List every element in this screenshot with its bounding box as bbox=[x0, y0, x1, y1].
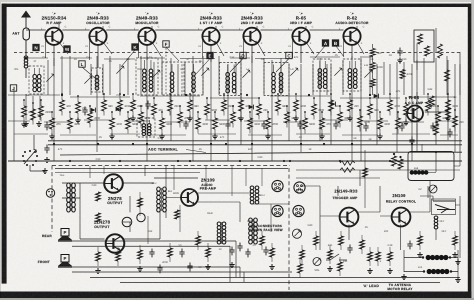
resistor R87 bbox=[338, 257, 343, 276]
ground G6 bbox=[23, 121, 28, 126]
resistor R82 bbox=[368, 247, 373, 266]
junction n7 bbox=[69, 160, 71, 162]
junction n20 bbox=[369, 94, 371, 96]
resistor R88 bbox=[360, 235, 365, 254]
outer scan margin bottom bbox=[0, 298, 474, 300]
junction n17 bbox=[185, 94, 187, 96]
speaker front bbox=[38, 255, 72, 268]
capacitor C40 bbox=[149, 249, 154, 258]
resistor R74 bbox=[196, 231, 201, 250]
resistor R120 bbox=[205, 97, 218, 119]
transformer L2 oscillator coil bbox=[92, 68, 103, 92]
resistor R136 bbox=[347, 93, 359, 121]
resistor R95 bbox=[340, 161, 355, 165]
junction n9 bbox=[189, 160, 191, 162]
transistor Q13 2N109 RELAY CONTROL bbox=[386, 193, 416, 227]
connector J2 bbox=[46, 189, 54, 197]
switch S2 rotary bbox=[22, 135, 45, 171]
resistor R116 bbox=[168, 93, 180, 115]
capacitor C13 bbox=[183, 121, 188, 130]
junction n13 bbox=[389, 160, 391, 162]
resistor R138 bbox=[368, 97, 380, 119]
junction n4 bbox=[251, 143, 253, 145]
capacitor C42 bbox=[229, 247, 234, 256]
resistor R80 bbox=[328, 245, 333, 264]
capacitor C8 bbox=[44, 145, 49, 154]
resistor R135 bbox=[338, 105, 351, 127]
resistor R60 bbox=[430, 96, 435, 107]
capacitor C35 bbox=[397, 48, 402, 63]
ground GA5 bbox=[327, 266, 332, 271]
resistor R133 bbox=[319, 111, 331, 139]
wire dashed chassis left bbox=[51, 166, 53, 233]
capacitor C46 bbox=[157, 265, 162, 274]
resistor R107 bbox=[88, 105, 101, 127]
junction n23 bbox=[225, 143, 227, 145]
transformer T5 4th IF transformer bbox=[313, 59, 331, 91]
transformer T10 output bbox=[217, 222, 226, 244]
capacitor C41 bbox=[179, 249, 184, 258]
capacitor C14 bbox=[225, 121, 230, 130]
resistor R99 bbox=[398, 156, 403, 169]
thermistor TH1 bbox=[122, 217, 132, 227]
resistor R118 bbox=[187, 93, 199, 121]
junction n18 bbox=[246, 94, 248, 96]
diode CR2 bbox=[374, 94, 379, 99]
junction n12 bbox=[339, 160, 341, 162]
resistor R103 bbox=[49, 111, 61, 139]
resistor R127 bbox=[265, 111, 278, 139]
transformer T2 1st IF transformer primary bbox=[162, 62, 182, 95]
ground GA7 bbox=[387, 268, 392, 273]
junction n16 bbox=[123, 94, 125, 96]
transistor Q5 2N49-R33 2ND I F AMP bbox=[241, 13, 264, 45]
transistor Q4 2N49-R33 1 ST I F AMP bbox=[200, 13, 223, 45]
connector point J bbox=[10, 85, 16, 91]
capacitor C17 bbox=[333, 121, 338, 130]
resistor R82 bbox=[96, 213, 101, 222]
transformer T12 output secondary bbox=[249, 218, 258, 244]
connector P3 face view bbox=[272, 205, 283, 216]
wire top interconnect y30 bbox=[26, 29, 344, 31]
pin labels Q7 bbox=[339, 26, 365, 49]
junction n26 bbox=[411, 143, 413, 145]
wire x365 drop bbox=[364, 150, 366, 208]
transformer T6 detector transformer bbox=[343, 59, 361, 91]
wire field links y95-98 bbox=[8, 95, 455, 98]
junction n2 bbox=[146, 143, 148, 145]
box top-right RC network bbox=[414, 30, 434, 62]
wire collector risers bbox=[59, 24, 357, 31]
resistor R62b bbox=[446, 108, 451, 119]
wire can top links y58 bbox=[26, 57, 372, 59]
resistor R105 bbox=[68, 111, 81, 133]
junction n27 bbox=[435, 151, 437, 153]
connector point N bbox=[33, 44, 39, 50]
capacitor C44 bbox=[347, 245, 352, 254]
resistor R76 bbox=[260, 231, 265, 250]
resistor R70 bbox=[96, 247, 101, 266]
inductor L20 choke bbox=[422, 255, 451, 259]
connector point L bbox=[79, 61, 85, 67]
resistor R110 bbox=[118, 93, 131, 115]
resistor R137 bbox=[358, 109, 371, 131]
potentiometer VOLUME bbox=[313, 258, 321, 273]
resistor R62c bbox=[445, 70, 450, 81]
junction n1 bbox=[97, 143, 99, 145]
capacitor C10 bbox=[44, 122, 49, 131]
resistor R96 bbox=[340, 168, 355, 172]
capacitor C20 bbox=[409, 137, 414, 146]
wire base drops bbox=[46, 36, 344, 60]
wire relay feeds bbox=[420, 196, 460, 258]
resistor R126 bbox=[257, 97, 269, 119]
transformer T7 modulator coil bbox=[137, 118, 155, 137]
diode CR5 bbox=[116, 107, 121, 112]
ground GA3 bbox=[229, 262, 234, 267]
wire emitter diagonals bbox=[59, 42, 364, 56]
junction n3 bbox=[210, 143, 212, 145]
potentiometer sensitivity bbox=[429, 185, 437, 193]
connector point K bbox=[132, 44, 138, 50]
resistor R84 bbox=[175, 210, 180, 219]
wire pointer diagonals bbox=[82, 46, 344, 79]
resistor R141 bbox=[396, 111, 409, 133]
resistor R85 bbox=[453, 231, 458, 250]
diode CR3 bbox=[331, 102, 336, 107]
junction n22 bbox=[177, 160, 179, 162]
capacitor C16 bbox=[297, 121, 302, 130]
wire dashed drop x166 bbox=[165, 48, 167, 95]
resistor R94 470K bbox=[400, 70, 413, 79]
pin labels Q5 bbox=[239, 26, 265, 49]
resistor R75 bbox=[206, 243, 211, 262]
capacitor C48 bbox=[263, 247, 268, 256]
ground GA6 bbox=[367, 268, 372, 273]
variable capacitor VC3 bbox=[116, 66, 124, 74]
ground G2 bbox=[455, 277, 460, 282]
transistor Q7 R-62 AUDIO-DETECTOR bbox=[335, 13, 369, 45]
junction n19 bbox=[308, 94, 310, 96]
wire dashed divider bbox=[288, 168, 290, 290]
variable capacitor VC5 bbox=[201, 68, 209, 76]
resistor R121 bbox=[212, 111, 225, 139]
resistor R98 bbox=[392, 153, 397, 166]
resistor R89 bbox=[376, 247, 381, 266]
transistor Q1 2N150-R34 R F AMP bbox=[42, 13, 67, 45]
connector point F bbox=[163, 41, 169, 47]
ground G3 bbox=[401, 274, 406, 279]
resistor R61 bbox=[434, 124, 439, 135]
capacitor C19 bbox=[399, 123, 404, 132]
wire right column bbox=[412, 28, 460, 152]
transistor Q8 R-64 AGC AMP bbox=[405, 95, 424, 121]
wire bottom audio section bbox=[62, 165, 198, 239]
ground G7 bbox=[36, 121, 41, 126]
wire relay box feeds bbox=[412, 144, 460, 196]
pin labels Q6 bbox=[288, 26, 314, 49]
resistor R92 1000 bbox=[370, 57, 383, 71]
inductor L21 choke bbox=[423, 269, 452, 273]
resistor R93 bbox=[370, 71, 375, 96]
connector P4 face view bbox=[293, 205, 304, 216]
resistor R131 bbox=[303, 111, 316, 133]
wire bus y144.8 bbox=[48, 144, 462, 146]
junction n15 bbox=[61, 94, 63, 96]
wire dashed AVC line y52 bbox=[14, 52, 460, 54]
resistor R143 bbox=[426, 93, 438, 115]
junction n5 bbox=[300, 143, 302, 145]
ground GA0 bbox=[95, 268, 100, 273]
resistor R108 bbox=[102, 93, 114, 115]
border frame left bar bbox=[2, 4, 7, 284]
wire vertical trunk lines bbox=[14, 56, 460, 161]
pin labels Q1 bbox=[41, 26, 67, 49]
capacitor C43 bbox=[245, 249, 250, 258]
variable capacitor VC6 bbox=[242, 70, 250, 78]
transformer T8 audio input bbox=[67, 183, 76, 212]
inductor L1 antenna loading coil bbox=[24, 56, 28, 78]
resistor R122 bbox=[222, 93, 235, 115]
resistor R134 bbox=[329, 93, 341, 115]
resistor R129 bbox=[285, 105, 298, 127]
connector P1 face view bbox=[272, 180, 283, 191]
resistor R128 bbox=[276, 93, 288, 115]
variable capacitor VC9 bbox=[364, 70, 372, 78]
border frame top bar bbox=[2, 4, 470, 7]
transformer T11 coupling bbox=[250, 186, 259, 204]
resistor R83 bbox=[388, 247, 393, 266]
resistor R111 bbox=[126, 111, 139, 133]
resistor R83 bbox=[138, 198, 143, 207]
junction n11 bbox=[289, 160, 291, 162]
pin labels Q2 bbox=[85, 26, 111, 49]
resistor R113 bbox=[139, 105, 151, 127]
junction n14 bbox=[25, 57, 27, 59]
transformer T1 antenna coil bbox=[29, 66, 44, 94]
label connectors note bbox=[249, 224, 283, 232]
resistor R56 bbox=[363, 168, 368, 177]
variable capacitor VC2 bbox=[84, 76, 92, 84]
capacitor C22 bbox=[447, 129, 452, 138]
wire bus y140.8 bbox=[48, 140, 462, 142]
resistor R115 bbox=[159, 111, 172, 139]
resistor R145 bbox=[445, 93, 458, 121]
resistor R71 bbox=[116, 247, 121, 266]
transformer T2a modulator transformer bbox=[136, 58, 158, 95]
ground GA2 bbox=[205, 264, 210, 269]
resistor R139 bbox=[377, 111, 390, 139]
transformer T2 1st IF transformer secondary bbox=[184, 62, 203, 95]
connector point D bbox=[240, 52, 246, 58]
connector point A bbox=[322, 40, 328, 46]
resistor R106 bbox=[75, 95, 87, 123]
capacitor C15 bbox=[261, 121, 266, 130]
resistor R130 bbox=[293, 93, 306, 121]
resistor R124 bbox=[238, 93, 250, 121]
resistor R119 bbox=[196, 111, 209, 133]
resistor R123 bbox=[231, 105, 243, 127]
resistor R86 bbox=[298, 259, 303, 278]
wire trigger section bbox=[296, 170, 460, 250]
resistor R114 bbox=[152, 97, 164, 119]
resistor R142 bbox=[403, 97, 416, 125]
resistor R77 bbox=[270, 243, 275, 262]
connector P2 face view bbox=[294, 182, 305, 193]
resistor R81 bbox=[96, 192, 101, 201]
connector point C bbox=[286, 52, 292, 58]
label AGC TERMINAL bbox=[148, 147, 206, 152]
antenna bbox=[12, 11, 31, 57]
junction n25 bbox=[323, 143, 325, 145]
ground GA8 bbox=[417, 252, 422, 257]
relay K1 contacts bbox=[432, 199, 456, 215]
diode CR1 bbox=[91, 108, 96, 113]
diode CR4 bbox=[249, 105, 254, 110]
junction n10 bbox=[239, 160, 241, 162]
resistor R140 bbox=[388, 93, 401, 115]
connector point M bbox=[64, 46, 70, 52]
transistor Q6 R-65 3RD I F AMP bbox=[290, 13, 313, 45]
capacitor C11 bbox=[82, 107, 87, 116]
resistor R146 bbox=[453, 109, 465, 131]
junction n0 bbox=[53, 143, 55, 145]
transformer T9 driver bbox=[152, 182, 173, 212]
resistor R125 bbox=[248, 111, 261, 133]
wire choke links bbox=[404, 250, 458, 280]
junction n8 bbox=[119, 160, 121, 162]
transistor Q3 2N49-R33 MODULATOR bbox=[135, 13, 159, 45]
junction n21 bbox=[132, 143, 134, 145]
junction n24 bbox=[283, 160, 285, 162]
ground G1 bbox=[455, 259, 460, 264]
resistor R144 bbox=[436, 105, 448, 127]
transistor Q10 2N278 OUTPUT lower bbox=[94, 220, 125, 253]
resistor R81 bbox=[339, 231, 344, 250]
ground GA1 bbox=[137, 266, 142, 271]
speaker rear bbox=[42, 229, 72, 242]
border frame right bar bbox=[468, 4, 472, 297]
capacitor C21 bbox=[430, 123, 435, 132]
resistor R109 bbox=[109, 111, 122, 139]
wire AGC terminal line bbox=[60, 152, 462, 155]
resistor R132 bbox=[312, 97, 325, 119]
ground G4 bbox=[44, 157, 49, 162]
junction n6 bbox=[351, 143, 353, 145]
pin labels Q3 bbox=[134, 26, 160, 49]
wire audio rail y172.5 bbox=[55, 172, 200, 174]
variable capacitor VC1 bbox=[46, 74, 54, 82]
wire audio rail y168.5 bbox=[55, 168, 288, 170]
relay box K2 with solenoid bbox=[408, 152, 454, 181]
resistor R91 560 bbox=[370, 44, 382, 57]
wire field links y134 bbox=[14, 134, 458, 135]
transistor Q9 2N278 OUTPUT upper bbox=[104, 174, 123, 205]
wire emitter drops bbox=[54, 45, 352, 68]
capacitor C18 bbox=[363, 123, 368, 132]
resistor R117 bbox=[178, 105, 191, 127]
transformer T3 2nd IF transformer bbox=[220, 63, 242, 96]
ground GA9 bbox=[452, 252, 457, 257]
wire audio verticals bbox=[90, 166, 271, 244]
resistor R72 bbox=[138, 245, 143, 264]
wire field links y120 bbox=[8, 120, 456, 122]
wire speaker leads bbox=[72, 241, 292, 272]
thermistor TH2 bbox=[137, 213, 145, 221]
transformer T4 3rd IF transformer bbox=[264, 63, 289, 96]
transistor Q2 2N49-R33 OSCILLATOR bbox=[86, 13, 110, 45]
transistor Q12 2N149-R33 TRIGGER AMP bbox=[332, 189, 358, 227]
resistor R63b bbox=[438, 44, 443, 58]
capacitor C12 bbox=[145, 101, 150, 110]
switch S1 bbox=[326, 254, 347, 260]
resistor R101 bbox=[31, 102, 44, 124]
connector point E bbox=[207, 52, 213, 58]
resistor R73 bbox=[168, 243, 173, 262]
resistor R79 bbox=[314, 231, 319, 250]
wire preamp links bbox=[130, 166, 289, 232]
capacitor C45 bbox=[407, 241, 412, 250]
resistor R100 bbox=[21, 99, 34, 127]
resistor R104 bbox=[60, 93, 72, 115]
pin labels Q4 bbox=[198, 26, 224, 49]
wire bottom long leads bbox=[90, 241, 460, 283]
label to antenna motor relay bbox=[387, 283, 413, 291]
outer scan margin right bbox=[471, 0, 474, 300]
resistor R102 bbox=[39, 99, 52, 121]
capacitor C47 bbox=[187, 263, 192, 272]
variable capacitor VC8 bbox=[334, 68, 342, 76]
inductor relay coil bbox=[434, 216, 438, 240]
resistor R78 bbox=[300, 245, 305, 264]
wire bus y161 bbox=[8, 160, 462, 162]
wire dashed chassis top bbox=[52, 165, 290, 167]
transistor Q11 2N109 AUDIO PRE-AMP bbox=[181, 178, 217, 207]
ground G5 bbox=[42, 168, 47, 173]
variable capacitor VC7 bbox=[290, 68, 298, 76]
capacitor C49 bbox=[237, 243, 242, 252]
variable capacitor VC4 bbox=[152, 70, 160, 78]
resistor R84 bbox=[418, 231, 423, 250]
ground GA4 bbox=[269, 264, 274, 269]
potentiometer P6 bbox=[292, 229, 301, 238]
resistor R112 bbox=[130, 93, 143, 121]
border frame bottom bar bbox=[0, 292, 474, 299]
connector point B bbox=[332, 40, 338, 46]
